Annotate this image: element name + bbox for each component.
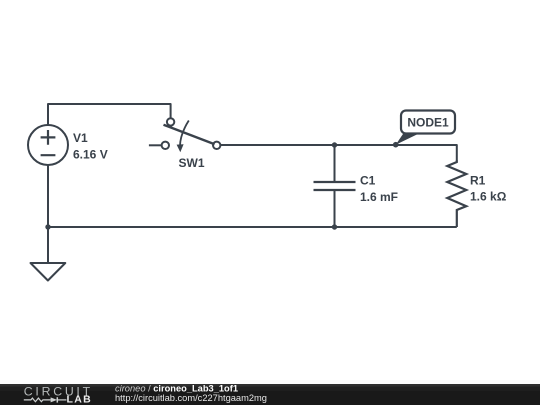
svg-text:1.6 kΩ: 1.6 kΩ	[470, 190, 507, 204]
wire from V1 top to switch SW1 top terminal	[48, 104, 171, 125]
svg-text:SW1: SW1	[179, 156, 205, 170]
label C1 1.6 mF	[360, 174, 398, 204]
svg-text:1.6 mF: 1.6 mF	[360, 190, 398, 204]
svg-text:http://circuitlab.com/c227htga: http://circuitlab.com/c227htgaam2mg	[115, 393, 267, 403]
svg-text:NODE1: NODE1	[407, 116, 449, 130]
svg-text:cironeo / cironeo_Lab3_1of1: cironeo / cironeo_Lab3_1of1	[115, 384, 238, 394]
footer title text	[115, 384, 267, 404]
wire from V1 bottom down to ground junction	[47, 165, 49, 263]
junction at C1 top	[332, 142, 337, 147]
svg-text:C1: C1	[360, 174, 376, 188]
resistor R1	[447, 160, 466, 227]
wire bottom rail	[48, 226, 457, 228]
wire top rail from switch to resistor corner	[220, 145, 456, 160]
label V1 6.16 V	[73, 131, 108, 162]
svg-text:V1: V1	[73, 131, 88, 145]
label R1 1.6 kOhm	[470, 173, 507, 203]
node NODE1 callout	[393, 111, 455, 148]
voltage source V1	[28, 125, 68, 165]
svg-text:6.16 V: 6.16 V	[73, 147, 108, 161]
ground	[31, 263, 66, 281]
svg-text:LAB: LAB	[67, 394, 92, 405]
CircuitLab logo	[24, 385, 91, 405]
capacitor C1	[314, 145, 356, 227]
switch SW1	[149, 118, 221, 152]
footer bar	[0, 384, 540, 405]
junction at C1 bottom	[332, 224, 337, 229]
junction at V1 bottom / ground rail	[45, 224, 50, 229]
svg-text:R1: R1	[470, 173, 486, 187]
